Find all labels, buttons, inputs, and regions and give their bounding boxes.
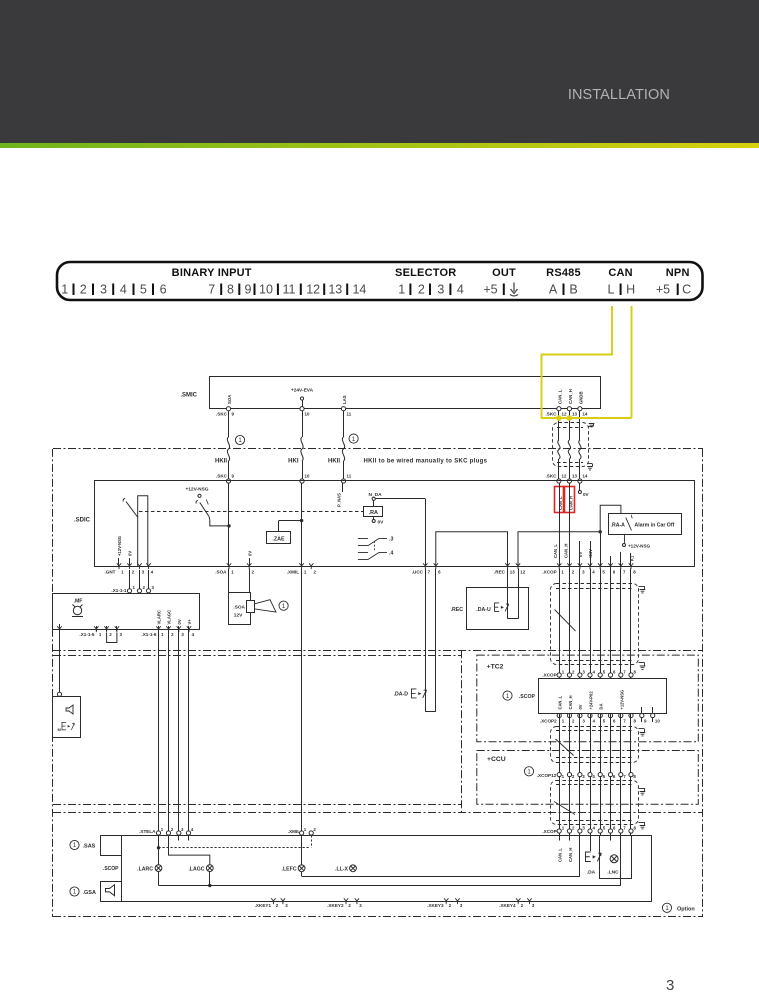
svg-text:3: 3 bbox=[152, 585, 155, 590]
gateway .SCOP bbox=[539, 679, 667, 714]
svg-text:1: 1 bbox=[398, 283, 405, 297]
svg-text:1: 1 bbox=[99, 632, 102, 637]
wire CAN_H through SDIC bbox=[569, 483, 571, 567]
tableau unit box bbox=[122, 836, 652, 902]
svg-text:.GSA: .GSA bbox=[83, 890, 96, 896]
receiver .REC box bbox=[467, 588, 529, 630]
selector separator bars bbox=[409, 284, 411, 296]
svg-text:.XCOP: .XCOP bbox=[542, 673, 556, 678]
svg-text:1: 1 bbox=[121, 570, 124, 575]
svg-text:+5: +5 bbox=[656, 283, 670, 297]
yellow wire CAN H bbox=[631, 306, 633, 418]
svg-text:6: 6 bbox=[613, 570, 616, 575]
wire UCC6 down bbox=[435, 569, 437, 712]
svg-text:8: 8 bbox=[634, 718, 637, 723]
svg-text:12: 12 bbox=[562, 412, 567, 417]
svg-text:4: 4 bbox=[191, 827, 194, 832]
svg-text:Option: Option bbox=[677, 906, 695, 912]
svg-text:2: 2 bbox=[171, 632, 174, 637]
svg-text:7: 7 bbox=[623, 774, 626, 779]
svg-text:3: 3 bbox=[532, 903, 535, 908]
svg-text:.XCOP12: .XCOP12 bbox=[537, 773, 557, 778]
svg-text:OUT: OUT bbox=[492, 267, 516, 279]
svg-text:.REC: .REC bbox=[451, 607, 464, 613]
svg-text:.SAS: .SAS bbox=[83, 844, 96, 850]
svg-text:.SMIC: .SMIC bbox=[180, 393, 197, 399]
svg-text:3: 3 bbox=[582, 825, 585, 830]
svg-text:.REC: .REC bbox=[494, 570, 506, 575]
red highlight CAN_H bbox=[565, 487, 575, 513]
svg-text:CAN_L: CAN_L bbox=[558, 496, 563, 510]
svg-text:6: 6 bbox=[160, 283, 167, 297]
svg-text:0V: 0V bbox=[177, 619, 182, 624]
svg-text:11: 11 bbox=[347, 412, 352, 417]
svg-text:14: 14 bbox=[352, 283, 366, 297]
svg-text:.LARC: .LARC bbox=[137, 867, 153, 873]
svg-text:.XCOP2: .XCOP2 bbox=[540, 718, 557, 723]
wire UCC7 down bbox=[425, 569, 427, 712]
svg-text:.UCC: .UCC bbox=[412, 570, 424, 575]
stub SOA2 0V label bbox=[249, 558, 251, 567]
svg-text:+12V-NSG: +12V-NSG bbox=[628, 544, 651, 549]
svg-text:.SOA: .SOA bbox=[233, 605, 245, 611]
CAN bundle wires CCU to bottom bbox=[559, 776, 561, 835]
pins .SKC 9-14 on .SMIC bbox=[226, 407, 230, 411]
svg-text:2: 2 bbox=[572, 570, 575, 575]
svg-text:2: 2 bbox=[132, 570, 135, 575]
svg-text:4: 4 bbox=[592, 774, 595, 779]
svg-text:CAN_H: CAN_H bbox=[564, 544, 569, 558]
shield ground top bbox=[588, 426, 594, 428]
svg-text:10: 10 bbox=[655, 718, 660, 723]
svg-text:CAN_L: CAN_L bbox=[557, 389, 562, 404]
pin MF left bbox=[59, 624, 61, 631]
svg-text:13: 13 bbox=[572, 474, 577, 479]
svg-text:1: 1 bbox=[231, 570, 234, 575]
wire LEFC to XCOP3 bbox=[302, 876, 580, 878]
svg-text:1: 1 bbox=[304, 570, 307, 575]
svg-text:BINARY INPUT: BINARY INPUT bbox=[172, 267, 252, 279]
lamp .LARC bbox=[158, 835, 160, 864]
svg-text:13: 13 bbox=[510, 570, 515, 575]
svg-text:2: 2 bbox=[348, 903, 351, 908]
svg-text:2: 2 bbox=[449, 903, 452, 908]
wire SKC10 to SDIC bbox=[302, 411, 304, 437]
zone boundary line upper bbox=[53, 650, 703, 652]
svg-text:VLAGC: VLAGC bbox=[167, 610, 172, 625]
svg-text:7: 7 bbox=[623, 669, 626, 674]
wire node to RA-A bbox=[600, 505, 621, 532]
svg-text:13: 13 bbox=[328, 283, 342, 297]
svg-text:.SKC: .SKC bbox=[216, 474, 228, 479]
svg-text:7: 7 bbox=[208, 283, 215, 297]
wire CAN_L through SDIC bbox=[559, 483, 561, 567]
svg-text:3: 3 bbox=[359, 903, 362, 908]
wires REC into box bbox=[507, 569, 509, 619]
svg-text:HKII to be wired manually to S: HKII to be wired manually to SKC plugs bbox=[364, 459, 488, 465]
svg-text:.LNC: .LNC bbox=[607, 870, 619, 876]
svg-text:LAS: LAS bbox=[342, 395, 347, 404]
svg-text:2: 2 bbox=[80, 283, 87, 297]
wire SKC11 to SDIC bbox=[343, 411, 345, 437]
lamp .LEFC bbox=[301, 835, 303, 865]
svg-text:.LL-X: .LL-X bbox=[335, 867, 349, 873]
terminal strip outline bbox=[57, 262, 703, 300]
svg-text:0V: 0V bbox=[247, 551, 252, 556]
wire XCOP7 to lamp bus bbox=[620, 835, 622, 885]
timer .ZAE bbox=[267, 532, 291, 544]
stubs GNT1 GNT2 labels bbox=[118, 558, 120, 567]
svg-text:1: 1 bbox=[562, 718, 565, 723]
wires X1-1-6 long bbox=[158, 631, 160, 835]
lamp .LAGC bbox=[169, 835, 210, 864]
stub XCOP4 +24V bbox=[590, 541, 592, 567]
svg-text:2: 2 bbox=[572, 669, 575, 674]
svg-text:11: 11 bbox=[283, 283, 296, 297]
svg-text:2: 2 bbox=[572, 774, 575, 779]
svg-text:1: 1 bbox=[561, 570, 564, 575]
svg-text:0V: 0V bbox=[128, 551, 133, 556]
svg-text:2: 2 bbox=[143, 585, 146, 590]
wire SKC9 to SDIC bbox=[228, 411, 230, 437]
svg-text:8: 8 bbox=[634, 669, 637, 674]
svg-text:+12V-NSG: +12V-NSG bbox=[117, 536, 122, 556]
svg-text:3: 3 bbox=[181, 827, 184, 832]
svg-text:+24V-EVA: +24V-EVA bbox=[291, 388, 314, 394]
svg-text:.XMIL: .XMIL bbox=[288, 829, 300, 834]
stub XCOP7 bbox=[620, 552, 622, 567]
stub XCOP3 0V bbox=[579, 541, 581, 567]
binary input separator bars bbox=[73, 284, 75, 296]
svg-text:CAN_L: CAN_L bbox=[557, 848, 562, 862]
svg-text:.DA-D: .DA-D bbox=[394, 692, 409, 698]
svg-text:5: 5 bbox=[603, 718, 606, 723]
svg-text:NPN: NPN bbox=[666, 267, 690, 279]
svg-text:10: 10 bbox=[305, 412, 310, 417]
svg-text:.XKEY3: .XKEY3 bbox=[427, 903, 444, 908]
svg-text:.XCOP: .XCOP bbox=[542, 570, 556, 575]
svg-text:2: 2 bbox=[252, 570, 255, 575]
connector .GNT pins bbox=[117, 563, 121, 569]
svg-text:HKI: HKI bbox=[288, 459, 299, 465]
svg-text:7: 7 bbox=[623, 718, 626, 723]
svg-text:M: M bbox=[58, 727, 62, 732]
svg-text:4: 4 bbox=[593, 669, 596, 674]
svg-text:.X1-1-5: .X1-1-5 bbox=[79, 632, 95, 637]
page number bbox=[666, 977, 674, 994]
svg-text:0V: 0V bbox=[578, 704, 583, 709]
loudspeaker .DA bbox=[590, 835, 592, 851]
svg-text:DA: DA bbox=[599, 704, 604, 710]
connector .UCC pins bbox=[423, 563, 427, 569]
svg-text:+12V-NSG: +12V-NSG bbox=[185, 487, 208, 493]
svg-text:.DA-U: .DA-U bbox=[476, 607, 491, 613]
zone boundary line lower bbox=[53, 804, 461, 806]
cable slash 3 bbox=[554, 802, 575, 815]
header title INSTALLATION bbox=[568, 87, 670, 103]
svg-text:RS485: RS485 bbox=[546, 267, 581, 279]
sheath1 ground top bbox=[639, 586, 645, 588]
wire REC12 to node bbox=[518, 532, 600, 567]
svg-text:A: A bbox=[549, 283, 558, 297]
svg-text:.SKC: .SKC bbox=[546, 474, 558, 479]
svg-text:SOA: SOA bbox=[227, 395, 232, 404]
svg-text:2: 2 bbox=[109, 632, 112, 637]
lamp box .LNC bbox=[600, 836, 632, 879]
svg-text:5: 5 bbox=[140, 283, 147, 297]
svg-text:5: 5 bbox=[603, 825, 606, 830]
svg-text:3: 3 bbox=[582, 774, 585, 779]
sheath2 ground bbox=[639, 728, 645, 730]
svg-text:3: 3 bbox=[460, 903, 463, 908]
svg-text:10: 10 bbox=[305, 474, 310, 479]
svg-text:6: 6 bbox=[613, 774, 616, 779]
note circled 1 left bbox=[235, 435, 244, 444]
svg-text:3: 3 bbox=[142, 570, 145, 575]
svg-text:3: 3 bbox=[582, 718, 585, 723]
svg-text:0V: 0V bbox=[583, 492, 590, 497]
svg-text:9: 9 bbox=[245, 283, 252, 297]
connector row .XCOP12 bbox=[524, 767, 533, 776]
svg-text:1: 1 bbox=[562, 825, 565, 830]
svg-text:.SKC: .SKC bbox=[546, 412, 558, 417]
svg-text:5: 5 bbox=[603, 774, 606, 779]
svg-text:VLARC: VLARC bbox=[157, 610, 162, 624]
svg-text:.SOA: .SOA bbox=[215, 570, 227, 575]
svg-text:.4: .4 bbox=[389, 551, 393, 557]
svg-text:HKII: HKII bbox=[328, 459, 340, 465]
outer dash-dot frame bbox=[53, 448, 703, 450]
svg-text:0V: 0V bbox=[578, 552, 583, 557]
svg-text:4: 4 bbox=[151, 570, 154, 575]
wire K1 bbox=[630, 553, 632, 567]
svg-text:.SDIC: .SDIC bbox=[74, 518, 91, 524]
svg-text:4: 4 bbox=[192, 632, 195, 637]
svg-text:3: 3 bbox=[120, 632, 123, 637]
stub XCOP6 bbox=[610, 556, 612, 567]
cable slash 2 bbox=[556, 739, 574, 756]
svg-text:1: 1 bbox=[562, 774, 565, 779]
svg-text:2: 2 bbox=[521, 903, 524, 908]
svg-text:CAN_H: CAN_H bbox=[568, 848, 573, 862]
wire SOA inside SDIC bbox=[228, 483, 230, 567]
svg-text:GNDB: GNDB bbox=[578, 391, 583, 404]
svg-text:2: 2 bbox=[418, 283, 425, 297]
page header bar bbox=[0, 0, 759, 143]
alarm switch .RA-A bbox=[609, 514, 682, 535]
svg-text:4: 4 bbox=[593, 718, 596, 723]
svg-text:4: 4 bbox=[593, 825, 596, 830]
controller unit .SMIC bbox=[210, 377, 601, 409]
green-yellow gradient rule bbox=[0, 143, 759, 148]
svg-text:3: 3 bbox=[285, 903, 288, 908]
cable slash 1 bbox=[555, 610, 576, 632]
svg-text:1: 1 bbox=[562, 669, 565, 674]
microphone symbol bbox=[73, 606, 81, 614]
red highlight CAN_L bbox=[555, 487, 564, 513]
svg-text:.XKEY1: .XKEY1 bbox=[255, 903, 272, 908]
svg-text:9: 9 bbox=[644, 718, 647, 723]
svg-text:6: 6 bbox=[438, 570, 441, 575]
connector .SOA pins bbox=[227, 563, 231, 569]
svg-text:P_NAS: P_NAS bbox=[336, 493, 341, 507]
svg-text:.RA-A: .RA-A bbox=[611, 523, 626, 529]
svg-text:2: 2 bbox=[572, 718, 575, 723]
svg-text:8: 8 bbox=[227, 283, 234, 297]
wire UCC6 to REC13 bbox=[436, 532, 508, 567]
cable sheath bundle 2 bbox=[551, 727, 639, 763]
svg-text:L: L bbox=[608, 283, 615, 297]
svg-text:11: 11 bbox=[347, 474, 352, 479]
cable sheath bundle 1 bbox=[551, 584, 639, 665]
svg-text:.3: .3 bbox=[389, 537, 393, 543]
svg-text:CAN_H: CAN_H bbox=[568, 389, 573, 404]
XCOP2 pins 9 10 bbox=[641, 707, 643, 722]
svg-text:3: 3 bbox=[437, 283, 444, 297]
svg-text:6: 6 bbox=[613, 825, 616, 830]
svg-text:2: 2 bbox=[276, 903, 279, 908]
svg-text:CAN_H: CAN_H bbox=[568, 695, 573, 709]
zone +TC2 box bbox=[477, 655, 699, 742]
svg-text:.SCOP: .SCOP bbox=[519, 694, 536, 700]
note circled 1 Option bbox=[662, 903, 671, 912]
svg-text:.LEFC: .LEFC bbox=[282, 867, 297, 873]
svg-text:CAN_L: CAN_L bbox=[558, 695, 563, 709]
jumper X1-1-5 2-3 bbox=[107, 633, 117, 643]
svg-text:8: 8 bbox=[633, 774, 636, 779]
svg-text:13: 13 bbox=[572, 412, 577, 417]
svg-text:4: 4 bbox=[457, 283, 464, 297]
svg-text:.SCOP: .SCOP bbox=[103, 866, 119, 872]
yellow junction dots bbox=[556, 415, 562, 421]
svg-text:CAN_L: CAN_L bbox=[553, 544, 558, 558]
svg-text:.X1-1-6: .X1-1-6 bbox=[141, 632, 157, 637]
svg-text:V+: V+ bbox=[187, 619, 192, 625]
CAN bundle wires SDIC to TC2 bbox=[559, 569, 561, 679]
svg-text:+5: +5 bbox=[483, 283, 497, 297]
svg-text:4: 4 bbox=[120, 283, 127, 297]
svg-text:H: H bbox=[626, 283, 635, 297]
svg-text:1: 1 bbox=[133, 585, 136, 590]
wire SKC14 to SDIC bbox=[579, 411, 581, 440]
svg-text:2: 2 bbox=[171, 827, 174, 832]
svg-text:9: 9 bbox=[232, 412, 235, 417]
svg-text:.XMIL: .XMIL bbox=[287, 570, 299, 575]
svg-text:SELECTOR: SELECTOR bbox=[395, 267, 456, 279]
sheath3 ground bottom bbox=[639, 822, 645, 824]
svg-text:12: 12 bbox=[306, 283, 320, 297]
connector .REC pins bbox=[505, 563, 509, 569]
svg-text:+CCU: +CCU bbox=[487, 756, 506, 763]
loudspeaker .DA-U bbox=[495, 603, 509, 612]
wire MF to speaker box bbox=[59, 631, 61, 693]
horn .SOA bbox=[228, 569, 230, 594]
sheath3 ground top bbox=[639, 788, 645, 790]
svg-text:3: 3 bbox=[582, 669, 585, 674]
svg-text:.GNT: .GNT bbox=[105, 570, 116, 575]
svg-text:+12V-NSG: +12V-NSG bbox=[620, 690, 625, 710]
svg-text:8: 8 bbox=[633, 570, 636, 575]
svg-text:10: 10 bbox=[259, 283, 273, 297]
svg-text:8: 8 bbox=[634, 825, 637, 830]
svg-text:+TC2: +TC2 bbox=[487, 664, 504, 671]
microphone unit .MF bbox=[53, 594, 200, 630]
svg-text:C: C bbox=[682, 283, 691, 297]
main board .SDIC bbox=[95, 481, 695, 567]
svg-text:14: 14 bbox=[583, 474, 588, 479]
RA-A output +12V-NSG bbox=[624, 534, 626, 543]
zone divider vertical bbox=[461, 650, 463, 813]
svg-text:7: 7 bbox=[428, 570, 431, 575]
yellow wire CAN L bbox=[542, 306, 632, 418]
svg-text:.XKEY2: .XKEY2 bbox=[327, 903, 344, 908]
svg-text:K1: K1 bbox=[629, 555, 634, 561]
svg-text:1: 1 bbox=[161, 827, 164, 832]
svg-text:.ZAE: .ZAE bbox=[272, 537, 285, 543]
svg-text:6: 6 bbox=[613, 718, 616, 723]
svg-text:7: 7 bbox=[623, 825, 626, 830]
svg-text:14: 14 bbox=[583, 412, 588, 417]
stub 0V from SKC14 bbox=[579, 483, 581, 491]
module .GSA bbox=[101, 882, 122, 902]
svg-text:5: 5 bbox=[602, 570, 605, 575]
svg-text:5: 5 bbox=[603, 669, 606, 674]
wire XMIL1 inside SDIC bbox=[301, 483, 303, 567]
cable sheath bundle 3 bbox=[551, 781, 639, 825]
pins .SKC on .SDIC top bbox=[226, 479, 230, 483]
note circled 1 right bbox=[349, 434, 358, 443]
dashed link lamps bbox=[159, 847, 310, 849]
wire XMIL1 long bbox=[301, 569, 303, 836]
handset speaker box bbox=[53, 697, 81, 738]
svg-text:+24V-P02: +24V-P02 bbox=[588, 691, 593, 710]
svg-text:N_DA: N_DA bbox=[369, 492, 383, 498]
svg-text:HKII: HKII bbox=[215, 459, 227, 465]
svg-text:3: 3 bbox=[181, 632, 184, 637]
switch S1 door contact bbox=[123, 499, 125, 502]
sheath1 ground bottom bbox=[639, 662, 645, 664]
svg-text:.XCOP: .XCOP bbox=[542, 829, 556, 834]
svg-text:3: 3 bbox=[582, 570, 585, 575]
wire P_NAS stub bbox=[342, 483, 344, 492]
svg-text:.SKC: .SKC bbox=[216, 412, 228, 417]
svg-text:12: 12 bbox=[520, 570, 525, 575]
wire SKC12 to SDIC bbox=[558, 411, 560, 440]
svg-text:1: 1 bbox=[61, 283, 68, 297]
relay .RA bbox=[373, 500, 375, 506]
connector .XMIL pins bbox=[299, 563, 303, 569]
svg-text:.XTELA: .XTELA bbox=[139, 829, 156, 834]
connector .XCOP pins on SDIC bbox=[557, 563, 561, 569]
svg-text:1: 1 bbox=[304, 827, 307, 832]
CAN bundle wires TC2 to CCU bbox=[559, 713, 561, 774]
svg-text:2: 2 bbox=[313, 827, 316, 832]
svg-text:Alarm in Car Off: Alarm in Car Off bbox=[635, 523, 675, 529]
svg-text:.DA: .DA bbox=[587, 870, 596, 876]
svg-text:CAN: CAN bbox=[608, 267, 632, 279]
wire SKC13 to SDIC bbox=[569, 411, 571, 440]
svg-text:.X1-1-1: .X1-1-1 bbox=[111, 588, 127, 593]
svg-text:1: 1 bbox=[161, 632, 164, 637]
contact .3 bbox=[358, 538, 368, 540]
svg-text:2: 2 bbox=[314, 570, 317, 575]
svg-text:12V: 12V bbox=[234, 613, 243, 619]
module .SAS bbox=[101, 836, 122, 856]
svg-text:.LAGC: .LAGC bbox=[188, 867, 204, 873]
svg-text:9: 9 bbox=[232, 474, 235, 479]
wire UCC7 bbox=[425, 499, 427, 567]
shield ground bottom bbox=[588, 463, 592, 465]
